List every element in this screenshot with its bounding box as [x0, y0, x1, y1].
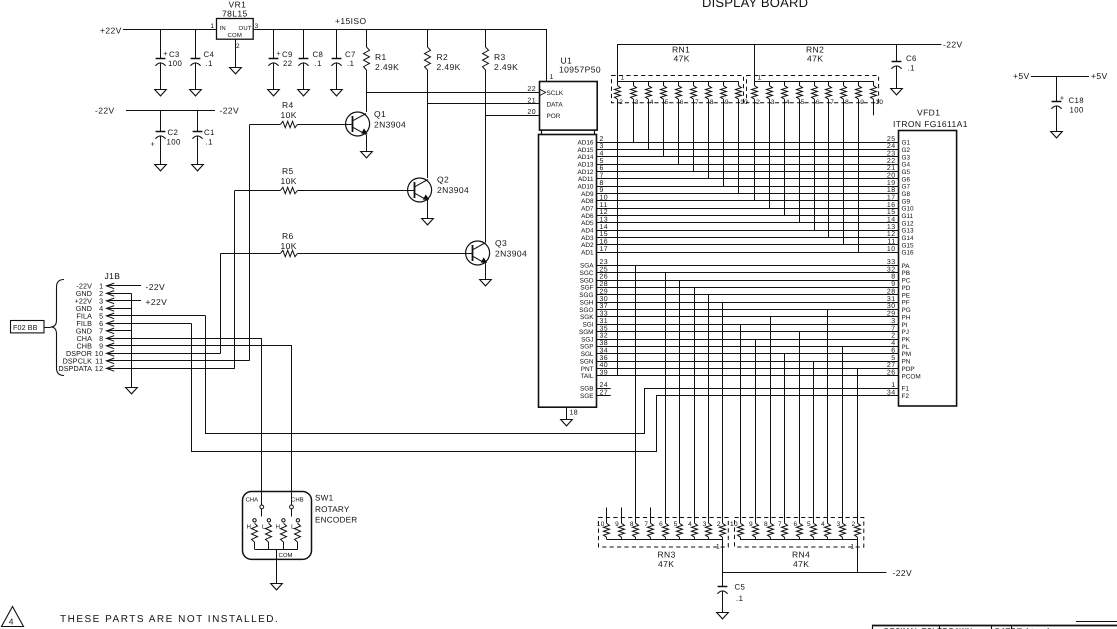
wire RN3 pin8 riser	[635, 265, 637, 523]
svg-text:C3: C3	[169, 50, 180, 59]
svg-text:19: 19	[887, 180, 896, 187]
svg-text:+22V: +22V	[146, 297, 168, 307]
wire AD12 to VFD G5	[578, 165, 911, 176]
capacitor C8	[298, 30, 323, 90]
wire -22V bottom rail	[722, 568, 912, 578]
wire RN2 pin10 stub	[873, 99, 875, 115]
svg-text:DSPDATA: DSPDATA	[58, 364, 92, 373]
svg-text:PJ: PJ	[902, 329, 909, 336]
svg-text:DISPLAY BOARD: DISPLAY BOARD	[702, 0, 808, 10]
svg-text:SGC: SGC	[580, 270, 594, 277]
wire U1 pin18	[567, 407, 579, 419]
wire SCLK net	[366, 92, 539, 94]
svg-text:F02 BB: F02 BB	[13, 323, 38, 332]
wire SGK to VFD PH	[580, 311, 911, 322]
svg-text:SGK: SGK	[580, 314, 594, 321]
wire TAIL to VFD PCOM	[580, 370, 920, 381]
wire RN4 pin7 riser	[784, 354, 786, 524]
display VFD1 label	[893, 108, 968, 130]
svg-text:5: 5	[665, 99, 669, 106]
svg-text:14: 14	[887, 217, 896, 224]
svg-text:+: +	[276, 49, 281, 58]
svg-text:8: 8	[710, 99, 714, 106]
svg-text:17: 17	[600, 246, 609, 253]
wire AD14 to VFD G3	[578, 151, 911, 162]
wire SGG to VFD PE	[579, 289, 910, 300]
svg-text:30: 30	[600, 296, 609, 303]
svg-text:PF: PF	[902, 300, 910, 307]
svg-text:1: 1	[851, 544, 855, 551]
svg-text:31: 31	[887, 296, 896, 303]
transistor Q3	[466, 238, 528, 265]
svg-text:4: 4	[786, 99, 790, 106]
svg-text:9: 9	[725, 99, 729, 106]
svg-text:AD4: AD4	[581, 228, 594, 235]
svg-text:AD1: AD1	[581, 249, 594, 256]
capacitor C4	[190, 30, 214, 90]
resistor network RN3 labels	[658, 550, 676, 570]
svg-text:RN4: RN4	[792, 550, 810, 560]
wire R3 to Q3 collector	[485, 70, 487, 242]
svg-text:-22V: -22V	[943, 40, 963, 50]
svg-text:PH: PH	[902, 314, 911, 321]
svg-text:2N3904: 2N3904	[437, 185, 469, 195]
svg-text:22: 22	[283, 59, 292, 68]
wire CHA net	[107, 339, 262, 506]
svg-text:1: 1	[758, 75, 762, 82]
wire RN1 common rail	[618, 81, 739, 83]
svg-text:G14: G14	[902, 235, 915, 242]
wire RN3 pin5 riser	[679, 280, 681, 523]
svg-text:-22V: -22V	[95, 106, 115, 116]
capacitor C5	[717, 572, 745, 612]
svg-text:2.49K: 2.49K	[494, 62, 518, 72]
resistor network RN1 box	[612, 75, 744, 103]
svg-text:G8: G8	[902, 191, 911, 198]
svg-text:PG: PG	[902, 307, 911, 314]
capacitor C3	[155, 30, 182, 90]
svg-text:18: 18	[570, 410, 579, 417]
wire RN1 pin6 to G4	[678, 99, 680, 164]
wire AD13 to VFD G4	[578, 158, 911, 169]
svg-text:4: 4	[688, 521, 692, 528]
wire RN3 pin6 riser	[665, 273, 667, 524]
svg-text:RN3: RN3	[658, 550, 676, 560]
wire RN1 pin4 to G2	[648, 99, 650, 149]
wire RN2 pin6 to G13	[814, 99, 816, 230]
svg-text:2.49K: 2.49K	[437, 62, 461, 72]
svg-text:6: 6	[793, 521, 797, 528]
svg-text:8: 8	[630, 521, 634, 528]
svg-text:COM: COM	[279, 552, 293, 559]
wire RN4 pin10 riser	[740, 324, 742, 523]
wire RN1 pin10 to G8	[738, 99, 740, 193]
svg-text:.1: .1	[347, 59, 354, 68]
wire SGN to VFD PN	[580, 355, 911, 366]
wire RN4 pin9 riser	[755, 339, 757, 523]
svg-text:AD13: AD13	[578, 162, 594, 169]
svg-text:C4: C4	[204, 50, 215, 59]
svg-text:Q1: Q1	[374, 109, 386, 119]
svg-text:SGH: SGH	[580, 300, 594, 307]
wire AD7 to VFD G10	[581, 202, 914, 213]
wire SGP to VFD PL	[580, 340, 910, 351]
wire SGA to VFD PA	[580, 259, 910, 270]
svg-text:PI: PI	[902, 322, 908, 329]
svg-text:G3: G3	[902, 154, 911, 161]
wire RN2 pin3 to G10	[769, 99, 771, 208]
svg-text:30: 30	[887, 303, 896, 310]
svg-text:PB: PB	[902, 270, 911, 277]
ground C3	[155, 90, 167, 96]
ground Q1	[361, 152, 373, 158]
ground U1 pin18	[561, 420, 573, 426]
svg-text:5: 5	[891, 355, 895, 362]
wire RN1 pin7 to G5	[693, 99, 695, 171]
resistor network RN4 labels	[792, 550, 810, 570]
svg-text:2: 2	[891, 333, 895, 340]
svg-text:6: 6	[659, 521, 663, 528]
wire RN4 pin8 riser	[770, 317, 772, 523]
svg-text:SGI: SGI	[582, 322, 593, 329]
wire R1 to Q1 collector	[366, 70, 368, 112]
wire FILA net	[206, 316, 899, 434]
svg-text:2: 2	[756, 99, 760, 106]
wire SGF to VFD PD	[580, 281, 910, 292]
svg-text:7: 7	[891, 325, 895, 332]
wire RN2 pin1 drop	[754, 44, 756, 81]
wire AD3 to VFD G14	[581, 231, 914, 242]
wire CHB net	[107, 346, 292, 506]
title DISPLAY BOARD	[702, 0, 808, 10]
wire AD8 to VFD G9	[581, 195, 910, 206]
svg-text:9: 9	[891, 281, 895, 288]
svg-text:G6: G6	[902, 176, 911, 183]
svg-text:CHA: CHA	[246, 497, 259, 504]
svg-text:C8: C8	[313, 50, 324, 59]
ground Q2	[422, 219, 434, 225]
IC U1 serial box	[527, 74, 597, 134]
resistor network RN4 elements	[730, 521, 861, 540]
wire RN3 pin10 stub (not installed)	[606, 508, 608, 524]
transistor Q1	[346, 109, 407, 136]
svg-text:18: 18	[887, 187, 896, 194]
svg-text:R3: R3	[494, 52, 506, 62]
wire DATA net	[428, 103, 540, 105]
svg-text:10: 10	[875, 99, 883, 106]
svg-text:7: 7	[778, 521, 782, 528]
svg-text:SGG: SGG	[579, 292, 593, 299]
svg-text:17: 17	[887, 195, 896, 202]
svg-text:SCLK: SCLK	[547, 90, 564, 97]
ground Q3	[480, 280, 492, 286]
svg-text:12: 12	[887, 231, 896, 238]
svg-text:PD: PD	[902, 285, 911, 292]
net +5V rail	[1013, 71, 1108, 81]
wire RN3 pin1 to -22V	[722, 540, 724, 573]
svg-text:78L15: 78L15	[222, 9, 248, 19]
wire DSPOR net	[220, 254, 222, 354]
svg-text:PK: PK	[902, 337, 911, 344]
svg-text:3: 3	[255, 23, 259, 30]
svg-text:2N3904: 2N3904	[374, 120, 406, 130]
wire RN3 pin7 stub (not installed)	[650, 508, 652, 524]
wire Q2 emitter	[427, 201, 429, 219]
wire RN3 pin9 stub (not installed)	[621, 508, 623, 524]
svg-text:+: +	[151, 139, 156, 148]
wire SGI to VFD PI	[582, 318, 907, 329]
regulator VR1 78L15	[211, 0, 259, 50]
svg-text:5: 5	[674, 521, 678, 528]
svg-text:100: 100	[167, 137, 181, 146]
svg-text:PM: PM	[902, 351, 912, 358]
svg-text:F2: F2	[902, 393, 910, 400]
wire POR net	[486, 115, 540, 117]
svg-text:AD8: AD8	[581, 198, 594, 205]
svg-text:SGB: SGB	[580, 386, 594, 393]
resistor network RN1 labels	[672, 45, 690, 64]
wire RN4 pin6 riser	[799, 332, 801, 524]
wire +22V rail	[123, 29, 216, 31]
wire J1B ground bus	[131, 293, 133, 387]
svg-text:5: 5	[600, 158, 604, 165]
svg-text:29: 29	[887, 311, 896, 318]
svg-text:10K: 10K	[281, 110, 297, 120]
connector J1B pin 12 DSPDATA	[58, 364, 234, 373]
svg-text:.1: .1	[908, 63, 915, 72]
svg-text:7: 7	[644, 521, 648, 528]
svg-text:47K: 47K	[807, 54, 823, 64]
wire SGD to VFD PC	[580, 274, 911, 285]
svg-text:22: 22	[527, 86, 536, 93]
wire AD4 to VFD G13	[581, 224, 914, 235]
connector J1B pin 4 GND	[76, 304, 132, 313]
svg-text:G2: G2	[902, 147, 911, 154]
IC U1 label	[559, 56, 601, 75]
svg-text:9: 9	[749, 521, 753, 528]
note THESE PARTS ARE NOT INSTALLED	[60, 614, 279, 625]
svg-text:3: 3	[635, 99, 639, 106]
wire RN3 pin2 riser	[722, 302, 724, 523]
wire +15ISO rail / U1 pin1	[254, 30, 547, 82]
wire DSPDATA net	[234, 191, 236, 369]
svg-text:C6: C6	[906, 54, 917, 63]
connector J1B pin 10 DSPOR	[66, 349, 221, 358]
net +15ISO label	[335, 16, 366, 26]
svg-text:8: 8	[891, 274, 895, 281]
wire RN2 pin2 to G9	[754, 99, 756, 201]
svg-text:C18: C18	[1069, 96, 1085, 105]
wire AD6 to VFD G11	[581, 209, 913, 220]
svg-text:3: 3	[836, 521, 840, 528]
svg-text:32: 32	[600, 333, 609, 340]
svg-text:G9: G9	[902, 198, 911, 205]
title block	[872, 622, 1117, 629]
svg-text:47K: 47K	[658, 559, 674, 569]
wire AD2 to VFD G15	[581, 239, 914, 250]
svg-text:+15ISO: +15ISO	[335, 16, 366, 26]
svg-text:20: 20	[887, 173, 896, 180]
svg-text:AD5: AD5	[581, 220, 594, 227]
svg-text:1: 1	[621, 75, 625, 82]
svg-text:15: 15	[887, 209, 896, 216]
connector J1B pin 5 FILA	[76, 312, 205, 321]
svg-text:R5: R5	[282, 166, 294, 176]
wire AD1 to VFD G16	[581, 246, 914, 257]
svg-text:-22V: -22V	[893, 568, 913, 578]
wire RN2 pin5 to G12	[799, 99, 801, 223]
svg-text:9: 9	[860, 99, 864, 106]
svg-text:14: 14	[600, 224, 609, 231]
ground SW1	[271, 584, 283, 590]
svg-text:SGA: SGA	[580, 263, 594, 270]
svg-text:PL: PL	[902, 344, 910, 351]
wire RN1 pin8 to G6	[708, 99, 710, 179]
svg-text:PE: PE	[902, 292, 911, 299]
wire SGM to VFD PJ	[579, 325, 909, 336]
note triangle 4	[2, 607, 24, 627]
wire SGC to VFD PB	[580, 266, 910, 277]
svg-text:H: H	[276, 524, 280, 531]
net -22V rail left	[95, 106, 239, 116]
connector J1B pin 6 FILB	[76, 319, 191, 328]
capacitor C2	[151, 110, 181, 164]
connector J1B pin 2 GND	[76, 289, 132, 298]
svg-text:AD15: AD15	[578, 147, 594, 154]
svg-text:G13: G13	[902, 228, 915, 235]
wire RN3 common rail	[607, 539, 723, 541]
brace J1B	[51, 280, 65, 376]
svg-text:26: 26	[600, 274, 609, 281]
svg-text:AD10: AD10	[578, 184, 594, 191]
svg-text:G5: G5	[902, 169, 911, 176]
ground C4	[190, 90, 202, 96]
switch SW1 rotary encoder	[243, 492, 312, 584]
svg-text:AD3: AD3	[581, 235, 594, 242]
svg-text:2: 2	[717, 521, 721, 528]
wire R2 to Q2 collector	[427, 70, 429, 178]
capacitor C1	[192, 110, 214, 164]
ground C8	[298, 90, 310, 96]
svg-text:POR: POR	[547, 113, 561, 120]
connector J1B pin 3 +22V	[75, 297, 141, 306]
wire RN4 pin1 to -22V	[857, 540, 859, 573]
svg-text:G11: G11	[902, 213, 914, 220]
svg-text:2: 2	[600, 136, 604, 143]
svg-text:PCOM: PCOM	[902, 373, 921, 380]
ground J1B	[126, 388, 138, 394]
svg-text:+22V: +22V	[100, 26, 122, 36]
svg-text:C1: C1	[204, 128, 215, 137]
svg-text:6: 6	[891, 347, 895, 354]
ground C9	[268, 90, 280, 96]
svg-text:5: 5	[801, 99, 805, 106]
svg-text:C9: C9	[282, 50, 293, 59]
wire RN1 pin9 to G7	[723, 99, 725, 186]
svg-text:.1: .1	[736, 594, 743, 603]
svg-text:.1: .1	[206, 59, 213, 68]
svg-text:10: 10	[887, 246, 896, 253]
svg-text:4: 4	[821, 521, 825, 528]
wire AD11 to VFD G6	[578, 173, 910, 184]
svg-text:-22V: -22V	[220, 106, 240, 116]
svg-text:10957P50: 10957P50	[559, 65, 601, 75]
svg-text:2N3904: 2N3904	[495, 249, 527, 259]
svg-text:SGM: SGM	[579, 329, 594, 336]
svg-text:PNT: PNT	[581, 366, 594, 373]
svg-text:20: 20	[527, 109, 536, 116]
svg-text:SGD: SGD	[580, 277, 594, 284]
wire RN4 common rail	[740, 539, 858, 541]
svg-text:AD16: AD16	[578, 140, 594, 147]
svg-text:SGJ: SGJ	[581, 336, 593, 343]
svg-text:25: 25	[887, 136, 896, 143]
svg-text:4: 4	[891, 340, 895, 347]
svg-text:SGO: SGO	[579, 307, 593, 314]
svg-text:AD11: AD11	[578, 176, 594, 183]
net -22V at J1B pin1	[146, 282, 166, 292]
svg-text:C5: C5	[735, 582, 746, 591]
ground C5	[717, 613, 729, 619]
resistor R3	[483, 30, 519, 73]
ground C6	[891, 89, 903, 95]
svg-text:1: 1	[716, 544, 720, 551]
svg-text:Q3: Q3	[495, 238, 507, 248]
connector J1B label	[105, 271, 121, 281]
wire SGH to VFD PF	[580, 296, 910, 307]
svg-text:10: 10	[730, 521, 738, 528]
svg-text:32: 32	[887, 266, 896, 273]
svg-text:28: 28	[887, 289, 896, 296]
svg-text:CHB: CHB	[291, 497, 304, 504]
svg-text:-22V: -22V	[146, 282, 166, 292]
svg-text:SGF: SGF	[580, 285, 593, 292]
resistor network RN2 labels	[806, 45, 824, 64]
svg-text:100: 100	[1070, 105, 1084, 114]
svg-text:11: 11	[887, 239, 895, 246]
svg-text:OUT: OUT	[239, 25, 252, 32]
net +22V at J1B pin3	[146, 297, 168, 307]
svg-text:9: 9	[615, 521, 619, 528]
wire RN1 pin3 to G1	[633, 99, 635, 142]
svg-text:G1: G1	[902, 140, 911, 147]
capacitor C6	[891, 44, 916, 88]
ground VR1	[230, 68, 242, 74]
capacitor C18	[1051, 76, 1084, 131]
IC U1 main box	[539, 135, 597, 408]
svg-text:31: 31	[600, 318, 609, 325]
svg-text:3: 3	[891, 318, 895, 325]
wire RN2 pin9 to G16	[858, 99, 860, 252]
svg-text:6: 6	[816, 99, 820, 106]
svg-text:21: 21	[527, 98, 536, 105]
svg-text:6: 6	[680, 99, 684, 106]
svg-text:G16: G16	[902, 250, 915, 257]
svg-text:J1B: J1B	[105, 271, 121, 281]
svg-text:AD6: AD6	[581, 213, 594, 220]
svg-text:8: 8	[600, 180, 604, 187]
svg-text:24: 24	[600, 382, 609, 389]
svg-text:F1: F1	[902, 386, 910, 393]
wire FILB net	[192, 324, 899, 452]
svg-text:L: L	[262, 524, 266, 531]
svg-text:H: H	[247, 524, 251, 531]
wire RN2 common rail	[755, 81, 874, 83]
svg-text:7: 7	[695, 99, 699, 106]
resistor R4	[250, 100, 353, 128]
svg-text:SW1: SW1	[315, 494, 334, 503]
connector J1B pin 11 DSPCLK	[63, 357, 250, 366]
